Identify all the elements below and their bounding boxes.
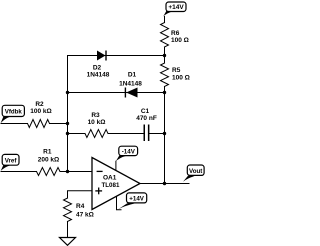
wire right rail bottom segment	[164, 87, 166, 184]
wire R6 to R5	[164, 47, 166, 63]
svg-text:-14V: -14V	[122, 148, 136, 155]
svg-text:TL081: TL081	[102, 182, 120, 189]
flag Vout	[183, 165, 204, 182]
svg-text:100 Ω: 100 Ω	[172, 74, 190, 81]
wire R3 line left	[68, 133, 86, 135]
svg-text:R2: R2	[35, 101, 44, 108]
wire D1 line	[68, 92, 165, 94]
svg-text:OA1: OA1	[103, 175, 117, 182]
svg-text:D1: D1	[128, 72, 137, 79]
diode D1	[125, 88, 137, 98]
wire R2 line left	[1, 123, 28, 125]
svg-text:Vfdbk: Vfdbk	[5, 109, 23, 116]
wire output	[140, 183, 189, 185]
node branch-R2 junction	[66, 122, 69, 125]
svg-text:100 Ω: 100 Ω	[171, 37, 189, 44]
wire non-inverting input	[68, 191, 93, 198]
node rail-output junction	[163, 182, 166, 185]
svg-text:100 kΩ: 100 kΩ	[30, 108, 51, 115]
node branch-R3 junction	[66, 132, 69, 135]
wire V- pin	[115, 161, 117, 170]
svg-text:R1: R1	[43, 149, 52, 156]
svg-text:R3: R3	[91, 112, 100, 119]
wire Vref to R1	[1, 171, 37, 173]
wire R3 to C1	[108, 133, 144, 135]
svg-text:R6: R6	[171, 30, 180, 37]
wire feedback branch vertical	[67, 56, 69, 172]
svg-text:Vref: Vref	[5, 157, 18, 164]
svg-text:470 nF: 470 nF	[136, 115, 157, 122]
svg-text:D2: D2	[93, 65, 102, 72]
wire R2 line right	[50, 123, 68, 125]
node branch-D1 junction	[66, 91, 69, 94]
flag +14V op-amp V+	[117, 193, 146, 210]
wire C1 to rail	[149, 133, 164, 135]
resistor R2	[28, 120, 50, 128]
resistor R4	[64, 198, 72, 222]
resistor R3	[85, 130, 108, 138]
svg-text:47 kΩ: 47 kΩ	[76, 212, 94, 219]
diode D2	[97, 51, 106, 61]
wire R4 to ground	[67, 222, 69, 238]
svg-text:Vout: Vout	[189, 168, 202, 175]
wire R1 to inverting input	[60, 171, 92, 173]
node rail-D2 junction	[163, 54, 166, 57]
svg-text:200 kΩ: 200 kΩ	[38, 157, 59, 164]
op-amp OA1 TL081	[92, 158, 140, 210]
flag +14V supply top	[163, 2, 186, 17]
svg-text:1N4148: 1N4148	[119, 81, 142, 88]
flag Vfdbk	[1, 105, 25, 123]
resistor R5	[161, 63, 169, 87]
resistor R1	[37, 168, 61, 176]
svg-text:+14V: +14V	[129, 195, 144, 202]
node rail-D1 junction	[163, 91, 166, 94]
wire D2 line	[68, 55, 165, 57]
svg-text:R4: R4	[76, 203, 85, 210]
ground	[60, 238, 76, 246]
node rail-C1 junction	[163, 132, 166, 135]
node branch-R1 inverting input junction	[66, 170, 69, 173]
svg-text:R5: R5	[172, 67, 181, 74]
wire V+ pin	[117, 195, 122, 210]
capacitor C1	[144, 125, 150, 142]
svg-text:C1: C1	[141, 108, 150, 115]
flag Vref	[1, 154, 19, 171]
svg-text:+14V: +14V	[168, 4, 184, 11]
wire right rail top segment	[164, 17, 166, 23]
resistor R6	[161, 23, 169, 48]
svg-text:10 kΩ: 10 kΩ	[88, 119, 106, 126]
svg-text:1N4148: 1N4148	[87, 72, 110, 79]
flag -14V op-amp V-	[116, 146, 138, 161]
